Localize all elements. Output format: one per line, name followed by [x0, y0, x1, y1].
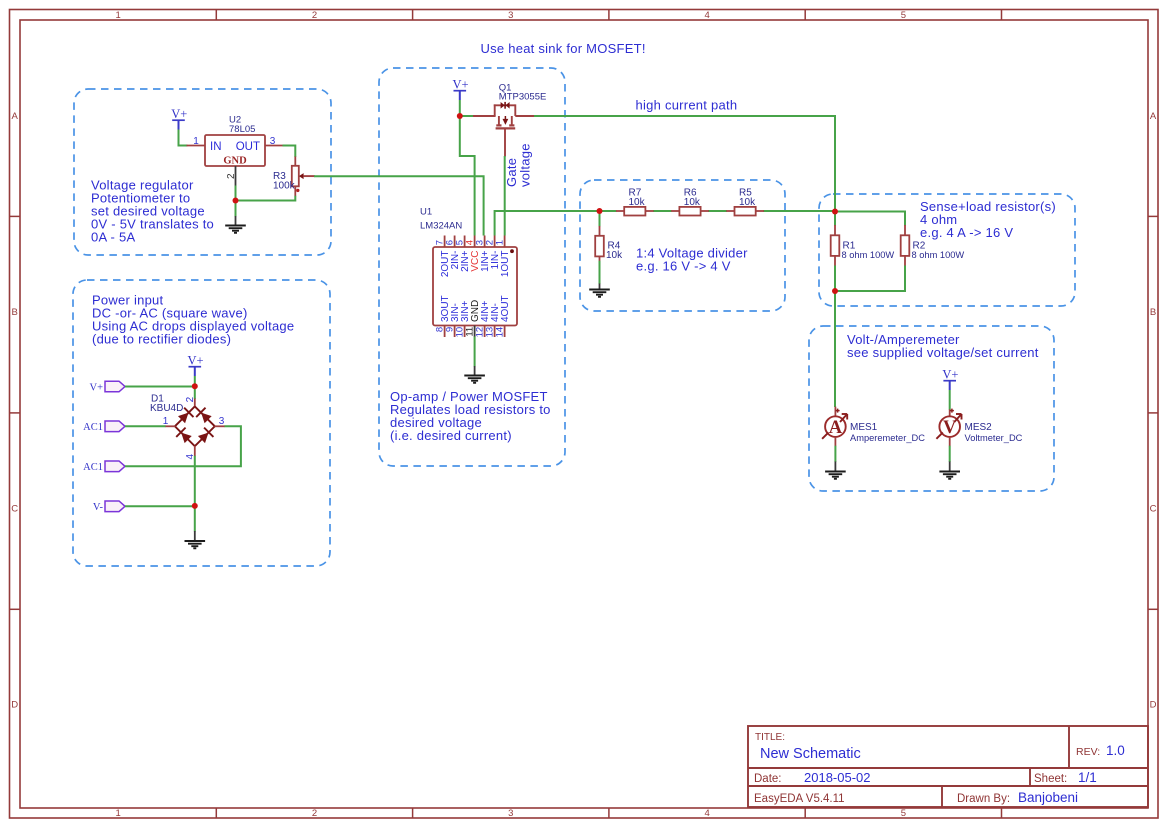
svg-text:IN: IN: [210, 141, 222, 153]
svg-text:1: 1: [495, 240, 506, 245]
svg-text:KBU4D: KBU4D: [150, 403, 183, 414]
svg-text:2: 2: [226, 173, 237, 179]
svg-text:1: 1: [116, 10, 121, 21]
svg-text:Banjobeni: Banjobeni: [1018, 790, 1078, 805]
svg-text:10k: 10k: [739, 197, 756, 208]
svg-text:Sheet:: Sheet:: [1034, 773, 1067, 785]
svg-text:5: 5: [901, 10, 906, 21]
svg-text:A: A: [829, 418, 843, 438]
svg-text:0A - 5A: 0A - 5A: [91, 230, 135, 245]
svg-text:New Schematic: New Schematic: [760, 746, 861, 762]
svg-text:78L05: 78L05: [229, 124, 255, 135]
svg-text:1: 1: [193, 136, 199, 147]
svg-text:OUT: OUT: [236, 141, 260, 153]
svg-text:A: A: [1150, 111, 1157, 122]
svg-text:Drawn By:: Drawn By:: [957, 793, 1010, 805]
svg-text:3: 3: [219, 416, 225, 427]
svg-text:3: 3: [508, 808, 513, 819]
svg-text:V+: V+: [188, 354, 204, 368]
svg-text:see supplied voltage/set curre: see supplied voltage/set current: [847, 345, 1039, 360]
svg-text:REV:: REV:: [1076, 746, 1100, 758]
svg-text:AC1: AC1: [83, 462, 103, 473]
svg-text:V+: V+: [171, 107, 187, 121]
svg-text:A: A: [12, 111, 19, 122]
svg-text:3: 3: [508, 10, 513, 21]
svg-text:8 ohm 100W: 8 ohm 100W: [912, 250, 965, 260]
svg-text:10k: 10k: [606, 250, 623, 261]
svg-text:10k: 10k: [684, 197, 701, 208]
svg-text:D: D: [11, 700, 18, 711]
svg-text:1.0: 1.0: [1106, 743, 1125, 758]
svg-text:C: C: [1150, 503, 1157, 514]
svg-text:100k: 100k: [273, 181, 296, 192]
svg-text:MES1: MES1: [850, 422, 878, 433]
svg-text:B: B: [12, 307, 18, 318]
svg-text:5: 5: [901, 808, 906, 819]
svg-text:U1: U1: [420, 207, 432, 218]
svg-text:TITLE:: TITLE:: [755, 732, 785, 743]
svg-text:Date:: Date:: [754, 773, 782, 785]
svg-text:GND: GND: [223, 156, 247, 167]
svg-text:EasyEDA V5.4.11: EasyEDA V5.4.11: [754, 793, 845, 805]
svg-text:10k: 10k: [629, 197, 646, 208]
svg-text:LM324AN: LM324AN: [420, 221, 462, 232]
svg-text:Amperemeter_DC: Amperemeter_DC: [850, 433, 925, 443]
svg-text:1OUT: 1OUT: [500, 251, 511, 278]
svg-text:high current path: high current path: [636, 98, 738, 113]
svg-text:MES2: MES2: [965, 422, 993, 433]
svg-text:AC1: AC1: [83, 422, 103, 433]
svg-text:2: 2: [312, 10, 317, 21]
svg-text:V: V: [943, 418, 957, 438]
svg-text:e.g. 4 A -> 16 V: e.g. 4 A -> 16 V: [920, 225, 1013, 240]
svg-text:C: C: [11, 503, 18, 514]
svg-text:4OUT: 4OUT: [500, 295, 511, 322]
svg-text:Use heat sink for MOSFET!: Use heat sink for MOSFET!: [481, 41, 646, 56]
svg-text:2018-05-02: 2018-05-02: [804, 770, 871, 785]
svg-text:3: 3: [270, 136, 276, 147]
svg-text:1: 1: [116, 808, 121, 819]
svg-text:D: D: [1150, 700, 1157, 711]
svg-text:voltage: voltage: [518, 143, 533, 187]
svg-text:Voltmeter_DC: Voltmeter_DC: [965, 433, 1023, 443]
svg-text:MTP3055E: MTP3055E: [499, 92, 547, 103]
svg-text:4: 4: [704, 808, 709, 819]
svg-text:4: 4: [704, 10, 709, 21]
svg-text:V-: V-: [93, 502, 104, 513]
svg-text:V+: V+: [942, 368, 958, 382]
svg-text:V+: V+: [89, 382, 103, 393]
svg-text:e.g. 16 V -> 4 V: e.g. 16 V -> 4 V: [636, 259, 731, 274]
svg-text:2: 2: [185, 396, 196, 402]
svg-text:1/1: 1/1: [1078, 770, 1097, 785]
svg-text:V+: V+: [453, 78, 469, 92]
svg-text:(due to rectifier diodes): (due to rectifier diodes): [92, 332, 231, 347]
svg-text:2: 2: [312, 808, 317, 819]
svg-text:(i.e. desired current): (i.e. desired current): [390, 428, 512, 443]
svg-text:8 ohm 100W: 8 ohm 100W: [842, 250, 895, 260]
svg-text:14: 14: [495, 327, 506, 338]
svg-text:B: B: [1150, 307, 1156, 318]
